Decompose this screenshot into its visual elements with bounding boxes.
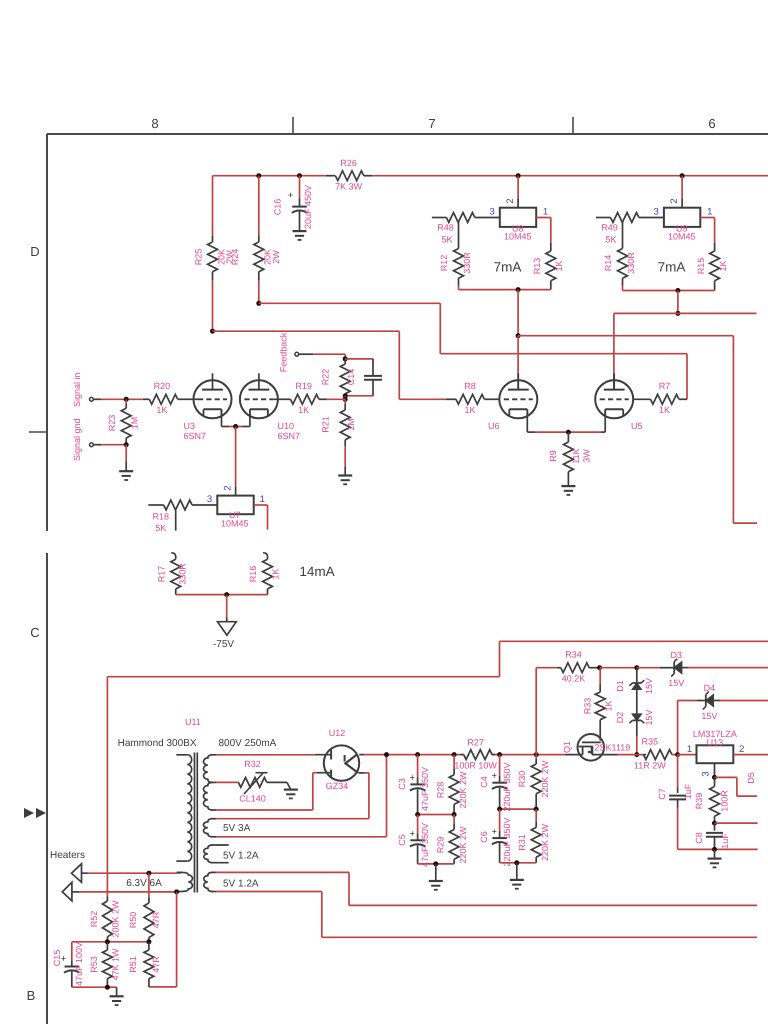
ground R32 <box>284 788 298 790</box>
svg-text:11R 2W: 11R 2W <box>634 760 666 770</box>
wire B+ filter line <box>492 754 565 756</box>
svg-text:220K 2W: 220K 2W <box>458 771 468 809</box>
node B+ rail junction C16 <box>297 173 302 178</box>
wire R49 to R14 <box>622 222 624 249</box>
svg-text:B: B <box>27 988 36 1003</box>
node ground line C8 <box>712 847 717 852</box>
svg-text:R27: R27 <box>467 738 484 748</box>
svg-text:1K: 1K <box>298 405 309 415</box>
svg-text:R20: R20 <box>154 381 171 391</box>
node ground rail R53 <box>105 985 110 990</box>
svg-text:R17: R17 <box>156 566 166 583</box>
svg-text:C16: C16 <box>273 199 283 216</box>
wire Q1 drain <box>592 754 618 756</box>
capacitor C5 <box>417 815 419 834</box>
triode U5 6SN7 <box>595 380 633 418</box>
node cathodes U6 U5 <box>566 430 571 435</box>
svg-text:U3: U3 <box>184 421 196 431</box>
svg-text:47uF 350V: 47uF 350V <box>420 767 430 811</box>
wire U8 output to U6 plate <box>517 290 519 336</box>
node C4 top <box>497 752 502 757</box>
wire R39 C8 stub <box>715 822 758 824</box>
resistor R33 <box>599 668 601 684</box>
svg-text:1K: 1K <box>156 405 167 415</box>
capacitor C15 <box>71 942 73 961</box>
wire U7 pin3 <box>192 504 217 506</box>
svg-text:+: + <box>288 190 293 200</box>
wire U6 plate to right stub <box>518 335 733 337</box>
svg-text:15V: 15V <box>701 711 717 721</box>
svg-text:330R: 330R <box>626 252 636 274</box>
node R35 U13 junction <box>675 752 680 757</box>
svg-text:220uF 350V: 220uF 350V <box>502 817 512 866</box>
triode U10 6SN7 <box>240 380 278 418</box>
svg-text:U11: U11 <box>185 717 201 727</box>
node B+ rail junction U9 pin2 <box>680 173 685 178</box>
wire U10 grid lead <box>273 398 278 400</box>
node source line D2 <box>634 752 639 757</box>
resistor R35 <box>644 754 647 756</box>
wire U10 cathode <box>249 409 251 426</box>
resistor R31 <box>535 809 537 822</box>
transformer 800V winding upper <box>203 755 212 783</box>
svg-text:220K 2W: 220K 2W <box>540 760 550 798</box>
svg-text:R53: R53 <box>89 956 99 973</box>
wire R18 down stub <box>175 509 177 531</box>
frame top border <box>47 133 768 135</box>
svg-text:R21: R21 <box>320 416 330 433</box>
svg-text:D3: D3 <box>670 650 682 660</box>
svg-text:20uF 450V: 20uF 450V <box>303 185 313 229</box>
svg-text:15V: 15V <box>644 678 654 694</box>
resistor R9 <box>567 432 569 442</box>
svg-text:C6: C6 <box>479 831 489 843</box>
svg-text:1: 1 <box>707 207 712 218</box>
svg-text:R28: R28 <box>436 782 446 799</box>
node mid left C5 <box>415 812 420 817</box>
svg-text:C: C <box>30 625 39 640</box>
mosfet Q1 2SK1119 <box>578 734 605 761</box>
wire U12 cathode output <box>359 754 364 756</box>
svg-text:7K 3W: 7K 3W <box>335 182 363 192</box>
svg-text:Feedback: Feedback <box>279 332 289 372</box>
svg-text:C8: C8 <box>694 832 704 844</box>
rectifier U12 GZ34 <box>324 745 359 780</box>
wire U13 pin3 <box>714 763 716 777</box>
svg-text:R23: R23 <box>107 415 117 432</box>
svg-text:Heaters: Heaters <box>50 850 85 861</box>
wire U9 pin3 <box>639 217 664 219</box>
svg-text:R25: R25 <box>194 249 204 266</box>
node mid right C6 <box>497 807 502 812</box>
svg-text:200K 2W: 200K 2W <box>111 900 121 938</box>
svg-text:100R 10W: 100R 10W <box>454 760 497 770</box>
wire heater line 2 <box>80 891 177 893</box>
wire C15 ground rail <box>72 986 117 988</box>
node U3 plate junction <box>210 329 215 334</box>
svg-text:47R: 47R <box>151 956 161 973</box>
svg-text:47K 1W: 47K 1W <box>111 948 121 981</box>
node R19 out junction <box>343 397 348 402</box>
capacitor C14 <box>345 358 373 360</box>
svg-text:5K: 5K <box>605 235 616 245</box>
svg-text:R32: R32 <box>244 759 261 769</box>
node mid right R31 <box>534 807 539 812</box>
svg-text:47uF 100V: 47uF 100V <box>74 942 84 986</box>
svg-text:+: + <box>492 771 497 781</box>
svg-text:R51: R51 <box>128 956 138 973</box>
ground regulator <box>714 849 716 858</box>
svg-text:C3: C3 <box>397 778 407 790</box>
svg-text:U5: U5 <box>631 421 643 431</box>
resistor R17 <box>171 553 175 559</box>
svg-text:1: 1 <box>687 744 692 755</box>
resistor R12 <box>454 249 464 279</box>
transformer 5V3A winding <box>203 819 212 837</box>
wire bottom line right <box>500 862 537 864</box>
svg-text:D2: D2 <box>615 712 625 724</box>
svg-text:8: 8 <box>151 116 158 131</box>
svg-text:1M: 1M <box>129 417 139 430</box>
capacitor C6 <box>499 809 501 831</box>
capacitor C8 <box>714 823 716 831</box>
wire U12 heater return <box>359 772 365 774</box>
frame left border lower <box>46 553 48 1024</box>
wire U8 pin3 <box>475 217 500 219</box>
svg-text:C7: C7 <box>657 788 667 800</box>
wire U5 cathode <box>604 409 606 432</box>
current source U9 10M45 <box>664 208 700 227</box>
svg-text:6SN7: 6SN7 <box>278 431 301 441</box>
svg-text:Q1: Q1 <box>562 741 572 753</box>
wire U6 cathode <box>526 409 528 432</box>
wire heater line 1 <box>88 872 177 874</box>
ground heater bias <box>116 987 118 996</box>
svg-text:R14: R14 <box>603 255 613 272</box>
svg-text:330R: 330R <box>178 563 188 585</box>
resistor R29 <box>453 815 455 825</box>
svg-text:R19: R19 <box>295 381 312 391</box>
wire to U13 pin1 <box>678 754 697 756</box>
capacitor C16 <box>299 176 301 199</box>
svg-text:C5: C5 <box>397 834 407 846</box>
ground filter right <box>516 863 518 880</box>
thermistor R32 CL140 <box>216 781 238 783</box>
zener D4 15V <box>677 701 679 755</box>
transformer U11 core <box>194 753 196 893</box>
resistor R24 <box>258 176 260 236</box>
node U5 plate line junction <box>675 311 680 316</box>
resistor R22 <box>344 359 346 364</box>
wire cathodes to U7 <box>235 427 237 487</box>
wire U3 plate to R8 <box>213 330 400 332</box>
svg-text:D4: D4 <box>704 683 716 693</box>
svg-text:2W: 2W <box>271 250 281 264</box>
svg-text:U6: U6 <box>488 421 500 431</box>
resistor R18 <box>148 504 163 506</box>
wire U7 pin1 stub <box>254 504 268 506</box>
current source U8 10M45 <box>500 208 536 227</box>
node feedback R22 top <box>343 356 348 361</box>
wire D1 to D3 <box>637 667 660 669</box>
triode U6 6SN7 <box>499 380 537 418</box>
wire negative rail <box>176 594 268 596</box>
transformer 6.3V winding <box>181 872 192 891</box>
svg-text:R31: R31 <box>517 834 527 851</box>
svg-text:R12: R12 <box>439 255 449 272</box>
svg-text:Signal gnd: Signal gnd <box>72 418 82 461</box>
svg-text:7mA: 7mA <box>494 260 522 275</box>
node heater line1 R50 <box>146 871 151 876</box>
wire U3 cathode <box>221 409 223 426</box>
frame row marker arrows <box>24 808 34 818</box>
wire pin3 to D5 <box>715 776 737 778</box>
svg-text:+: + <box>492 827 497 837</box>
svg-text:R33: R33 <box>582 698 592 715</box>
capacitor C3 <box>417 755 419 778</box>
terminal heater arrow 1 <box>72 864 82 883</box>
svg-text:R52: R52 <box>89 911 99 928</box>
power -75V <box>226 595 228 618</box>
svg-text:2SK1119: 2SK1119 <box>595 743 631 753</box>
svg-text:2: 2 <box>739 744 744 755</box>
wire R34 to D1 <box>600 667 637 669</box>
transformer 5V1.2A winding unused <box>204 845 213 863</box>
svg-text:7mA: 7mA <box>658 260 686 275</box>
wire U9 pin2 <box>681 176 683 199</box>
resistor R48 <box>432 217 447 219</box>
node R34 R33 <box>597 665 602 670</box>
zener D1 15V <box>636 668 638 683</box>
node B+ rail junction R24 <box>256 173 261 178</box>
resistor R8 <box>446 398 456 400</box>
wire U9 output down <box>677 291 679 314</box>
resistor R21 <box>344 399 346 404</box>
svg-text:U13: U13 <box>707 738 724 748</box>
resistor R20 <box>143 398 149 400</box>
terminal Signal gnd <box>90 443 94 447</box>
wire B+ rail top <box>213 175 326 177</box>
svg-text:5V 3A: 5V 3A <box>223 823 251 834</box>
wire ground line lower right <box>678 848 758 850</box>
wire 5V3A bottom to B+ <box>216 836 387 838</box>
wire bias feed down to R52 <box>106 677 108 897</box>
svg-text:R9: R9 <box>548 450 558 462</box>
node U9 bottom junction <box>675 288 680 293</box>
svg-text:R29: R29 <box>436 837 446 854</box>
node signal gnd junction <box>124 442 129 447</box>
svg-text:+: + <box>410 829 415 839</box>
svg-text:40.2K: 40.2K <box>562 674 586 684</box>
svg-text:5K: 5K <box>441 235 452 245</box>
svg-text:220K 2W: 220K 2W <box>540 823 550 861</box>
svg-text:15V: 15V <box>644 709 654 725</box>
frame column tick 7|6 <box>572 117 574 134</box>
resistor R26 <box>326 175 336 177</box>
resistor R14 <box>618 249 628 279</box>
node R28 top <box>452 752 457 757</box>
svg-text:R34: R34 <box>565 650 582 660</box>
node cathodes U3 U10 <box>233 424 238 429</box>
triode U3 6SN7 <box>194 380 232 418</box>
svg-text:10M45: 10M45 <box>504 231 532 241</box>
wire bias feed line <box>107 676 499 678</box>
node heater line2 junction <box>174 889 179 894</box>
node D1 top <box>634 665 639 670</box>
wire U13 pin2 <box>733 754 768 756</box>
node U10 plate junction <box>256 301 261 306</box>
svg-text:U12: U12 <box>329 728 346 738</box>
svg-text:15V: 15V <box>668 678 684 688</box>
svg-text:C4: C4 <box>479 776 489 788</box>
svg-text:6: 6 <box>708 116 715 131</box>
node R39 C8 <box>712 821 717 826</box>
node U13 pin3 <box>712 775 717 780</box>
svg-text:2: 2 <box>505 198 516 203</box>
wire U8 pin2 <box>517 176 519 199</box>
wire heater mid rail <box>72 941 149 943</box>
wire bottom line left <box>418 863 455 865</box>
wire mid line right <box>500 808 537 810</box>
svg-text:3W: 3W <box>582 449 592 463</box>
resistor R7 <box>633 398 650 400</box>
wire R30 column to R34 <box>535 668 537 755</box>
resistor R39 <box>714 777 716 786</box>
svg-text:14mA: 14mA <box>299 564 334 579</box>
node bottom left <box>433 861 438 866</box>
svg-text:2: 2 <box>669 198 680 203</box>
svg-text:10M45: 10M45 <box>221 518 249 528</box>
wire heater line2 to R51 bottom <box>176 892 178 987</box>
terminal Signal in <box>90 397 94 401</box>
wire R23 to ground <box>125 445 127 461</box>
svg-text:1uF: 1uF <box>683 783 693 799</box>
svg-text:47uF 350V: 47uF 350V <box>420 823 430 867</box>
node mid rail R50 R51 <box>146 939 151 944</box>
svg-text:R49: R49 <box>601 223 618 233</box>
svg-text:1: 1 <box>260 494 265 505</box>
frame row tick D-C <box>29 431 47 433</box>
resistor R30 <box>535 755 537 759</box>
wire U9 bottom loop <box>623 290 715 292</box>
wire feedback <box>299 353 313 355</box>
wire U8 bottom loop <box>459 289 551 291</box>
svg-text:11K: 11K <box>571 448 581 463</box>
wire signal gnd <box>94 444 101 446</box>
svg-text:220K 2W: 220K 2W <box>458 826 468 864</box>
svg-text:5V 1.2A: 5V 1.2A <box>223 851 259 862</box>
svg-text:R24: R24 <box>230 249 240 266</box>
svg-text:1K: 1K <box>718 260 728 271</box>
node R22 bottom <box>343 393 348 398</box>
svg-text:220uF 350V: 220uF 350V <box>502 762 512 811</box>
resistor R25 <box>212 176 214 236</box>
resistor R19 <box>278 398 291 400</box>
svg-text:R22: R22 <box>320 369 330 386</box>
svg-text:R13: R13 <box>532 258 542 275</box>
wire U5 plate lead <box>613 373 615 389</box>
ground filter left <box>435 864 437 881</box>
node negative rail <box>224 592 229 597</box>
resistor R13 <box>536 217 551 219</box>
svg-text:U10: U10 <box>278 421 295 431</box>
svg-text:+: + <box>410 773 415 783</box>
transformer 5V1.2A winding second <box>204 872 213 891</box>
svg-text:100R: 100R <box>719 790 729 812</box>
svg-text:R50: R50 <box>128 912 138 929</box>
resistor R49 <box>596 217 611 219</box>
svg-text:R16: R16 <box>248 566 258 583</box>
frame column tick 8|7 <box>292 117 294 134</box>
svg-text:R48: R48 <box>437 223 454 233</box>
wire signal in <box>94 398 101 400</box>
resistor R27 <box>461 754 464 756</box>
wire 800V bottom to U12 <box>216 809 313 811</box>
svg-text:R39: R39 <box>694 793 704 810</box>
resistor R53 <box>106 942 108 950</box>
ground R21 <box>338 474 352 476</box>
svg-text:5K: 5K <box>155 523 166 533</box>
node bottom right <box>514 860 519 865</box>
svg-text:R30: R30 <box>517 771 527 788</box>
svg-text:1K: 1K <box>554 260 564 271</box>
svg-text:1K: 1K <box>659 405 670 415</box>
node U8 bottom junction <box>516 287 521 292</box>
svg-text:3: 3 <box>701 771 712 776</box>
svg-text:7: 7 <box>428 116 435 131</box>
svg-text:CL140: CL140 <box>239 794 266 804</box>
wire R48 to R12 <box>458 222 460 249</box>
svg-text:D5: D5 <box>746 772 756 784</box>
ground C16 <box>293 230 307 232</box>
svg-text:-75V: -75V <box>213 639 234 650</box>
svg-text:3: 3 <box>654 207 659 218</box>
node mid left R29 <box>452 812 457 817</box>
wire U5 plate line <box>614 312 757 314</box>
svg-text:10M45: 10M45 <box>668 231 696 241</box>
svg-text:1K: 1K <box>271 568 281 579</box>
transformer 800V winding lower <box>203 782 212 810</box>
svg-text:GZ34: GZ34 <box>326 781 349 791</box>
svg-text:D1: D1 <box>615 680 625 692</box>
resistor R34 <box>536 667 557 669</box>
node U6 plate line junction <box>516 333 521 338</box>
resistor R15 <box>700 217 714 219</box>
svg-text:1M: 1M <box>346 418 356 431</box>
node signal in junction <box>124 397 129 402</box>
wire heater winding2 top <box>216 871 349 873</box>
svg-text:1: 1 <box>543 207 548 218</box>
resistor R23 <box>125 399 127 404</box>
terminal Feedback <box>295 352 299 356</box>
svg-text:800V 250mA: 800V 250mA <box>219 738 277 749</box>
capacitor C7 <box>677 755 679 788</box>
svg-text:3: 3 <box>207 494 212 505</box>
svg-text:C14: C14 <box>346 369 356 386</box>
svg-text:R15: R15 <box>696 258 706 275</box>
resistor R52 <box>106 896 108 901</box>
node R30 top <box>534 752 539 757</box>
svg-text:Hammond 300BX: Hammond 300BX <box>118 738 197 749</box>
wire Q1 source <box>565 754 583 756</box>
svg-text:47R: 47R <box>151 911 161 928</box>
svg-text:R35: R35 <box>642 737 659 747</box>
node C3 top <box>415 752 420 757</box>
wire U3 grid lead <box>194 398 199 400</box>
node B+ rail junction U8 pin2 <box>516 173 521 178</box>
resistor R51 <box>148 942 150 950</box>
ground input <box>119 470 133 472</box>
